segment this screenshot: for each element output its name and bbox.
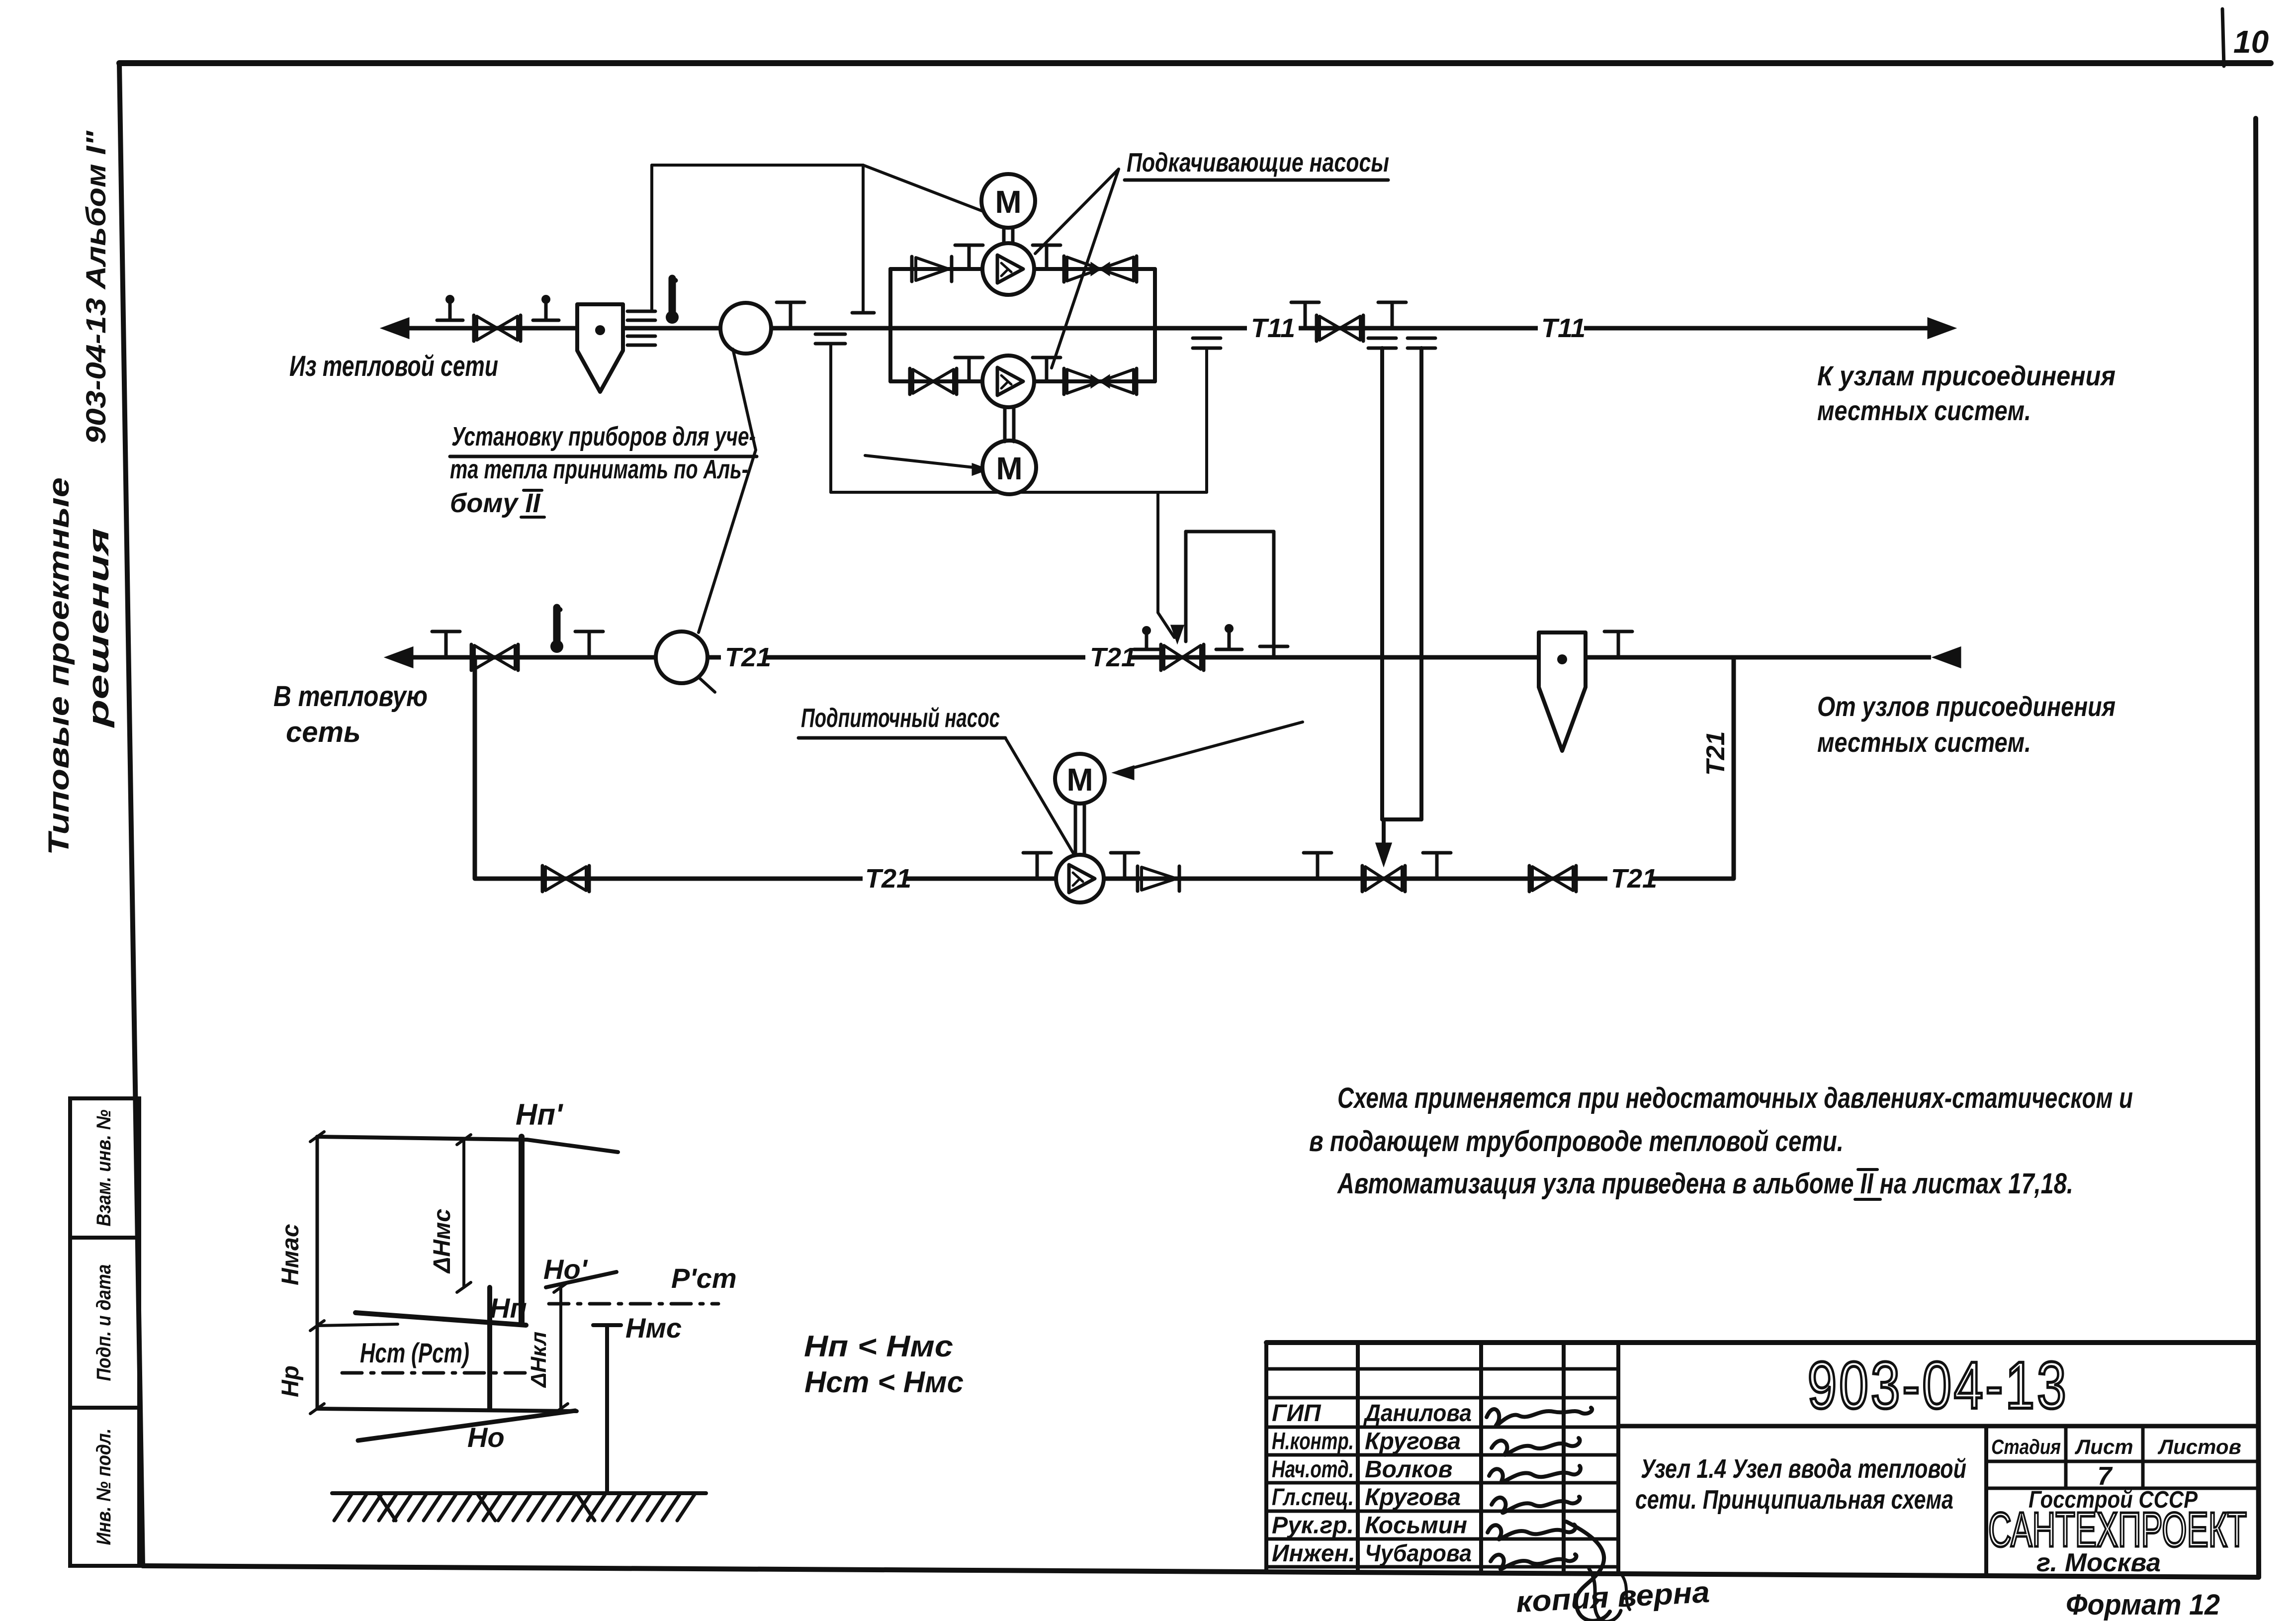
svg-text:бому II: бому II bbox=[450, 488, 540, 518]
svg-text:903-04-13: 903-04-13 bbox=[1808, 1349, 2069, 1423]
svg-text:Инжен.: Инжен. bbox=[1272, 1540, 1355, 1567]
svg-text:От узлов присоединения: От узлов присоединения bbox=[1817, 691, 2116, 722]
svg-text:Т21: Т21 bbox=[1701, 731, 1730, 776]
svg-text:ГИП: ГИП bbox=[1272, 1400, 1322, 1427]
svg-text:903-04-13 Альбом I": 903-04-13 Альбом I" bbox=[80, 130, 111, 444]
svg-text:Подпиточный насос: Подпиточный насос bbox=[801, 703, 1000, 733]
svg-text:Нп < Нмс: Нп < Нмс bbox=[804, 1330, 953, 1363]
svg-text:Рук.гр.: Рук.гр. bbox=[1272, 1513, 1354, 1539]
svg-text:Формат 12: Формат 12 bbox=[2066, 1589, 2220, 1621]
svg-text:Данилова: Данилова bbox=[1363, 1400, 1472, 1427]
svg-text:Нмас: Нмас bbox=[277, 1224, 304, 1285]
svg-text:Из тепловой сети: Из тепловой сети bbox=[289, 350, 498, 382]
svg-text:Т11: Т11 bbox=[1251, 313, 1295, 343]
svg-text:та тепла принимать по Аль-: та тепла принимать по Аль- bbox=[450, 454, 748, 484]
svg-text:Подкачивающие насосы: Подкачивающие насосы bbox=[1127, 148, 1389, 178]
svg-text:Взам. инв. №: Взам. инв. № bbox=[93, 1109, 115, 1226]
svg-text:Нст < Нмс: Нст < Нмс bbox=[804, 1365, 964, 1399]
svg-text:сети. Принципиальная схема: сети. Принципиальная схема bbox=[1635, 1485, 1953, 1515]
svg-text:Т21: Т21 bbox=[725, 642, 771, 672]
svg-text:решения: решения bbox=[83, 528, 115, 728]
svg-text:Нп: Нп bbox=[490, 1292, 527, 1324]
svg-text:M: M bbox=[996, 450, 1022, 486]
svg-text:Волков: Волков bbox=[1365, 1456, 1452, 1483]
svg-text:Нач.отд.: Нач.отд. bbox=[1272, 1456, 1354, 1483]
svg-text:Гл.спец.: Гл.спец. bbox=[1272, 1484, 1354, 1511]
svg-text:г. Москва: г. Москва bbox=[2036, 1548, 2161, 1577]
svg-text:Но: Но bbox=[467, 1422, 505, 1453]
svg-text:Т21: Т21 bbox=[865, 864, 911, 894]
svg-text:ΔНмс: ΔНмс bbox=[429, 1209, 455, 1274]
svg-text:местных систем.: местных систем. bbox=[1817, 726, 2031, 758]
svg-text:Косьмин: Косьмин bbox=[1365, 1513, 1467, 1539]
svg-text:ΔНкл: ΔНкл bbox=[527, 1332, 551, 1388]
svg-text:Н.контр.: Н.контр. bbox=[1272, 1428, 1354, 1454]
svg-text:Автоматизация узла приведена: Автоматизация узла приведена в альбоме I… bbox=[1336, 1168, 2073, 1200]
svg-text:Инв. № подл.: Инв. № подл. bbox=[93, 1429, 115, 1545]
svg-text:Листов: Листов bbox=[2157, 1435, 2241, 1458]
svg-text:Кругова: Кругова bbox=[1365, 1484, 1461, 1511]
svg-text:M: M bbox=[1066, 762, 1093, 798]
svg-text:Чубарова: Чубарова bbox=[1365, 1540, 1472, 1567]
svg-text:сеть: сеть bbox=[286, 716, 361, 748]
svg-text:Узел 1.4 Узел ввода тепловой: Узел 1.4 Узел ввода тепловой bbox=[1641, 1454, 1966, 1484]
svg-text:Стадия: Стадия bbox=[1991, 1435, 2061, 1458]
svg-text:Р'ст: Р'ст bbox=[671, 1262, 737, 1294]
svg-text:Подп. и дата: Подп. и дата bbox=[93, 1264, 115, 1381]
svg-text:Т11: Т11 bbox=[1541, 313, 1586, 343]
svg-text:в подающем трубопроводе те: в подающем трубопроводе тепловой сети. bbox=[1309, 1125, 1844, 1158]
svg-text:Нп': Нп' bbox=[516, 1098, 563, 1131]
svg-text:К узлам присоединения: К узлам присоединения bbox=[1817, 360, 2116, 391]
svg-text:В тепловую: В тепловую bbox=[273, 680, 428, 713]
svg-text:Кругова: Кругова bbox=[1365, 1428, 1461, 1454]
svg-text:M: M bbox=[995, 184, 1021, 220]
svg-text:Т21: Т21 bbox=[1611, 864, 1657, 894]
svg-text:Лист: Лист bbox=[2074, 1435, 2133, 1458]
svg-text:Т21: Т21 bbox=[1090, 642, 1136, 672]
svg-text:Нр: Нр bbox=[277, 1365, 304, 1397]
svg-text:местных систем.: местных систем. bbox=[1817, 395, 2031, 426]
svg-text:Нст (Рст): Нст (Рст) bbox=[360, 1337, 469, 1368]
svg-text:Установку приборов для уче-: Установку приборов для уче- bbox=[451, 422, 756, 451]
svg-text:Типовые проектные: Типовые проектные bbox=[43, 477, 75, 855]
svg-text:Схема применяется при недос: Схема применяется при недостаточных давл… bbox=[1337, 1082, 2133, 1114]
svg-text:10: 10 bbox=[2233, 24, 2269, 60]
svg-text:Нмс: Нмс bbox=[625, 1312, 682, 1344]
